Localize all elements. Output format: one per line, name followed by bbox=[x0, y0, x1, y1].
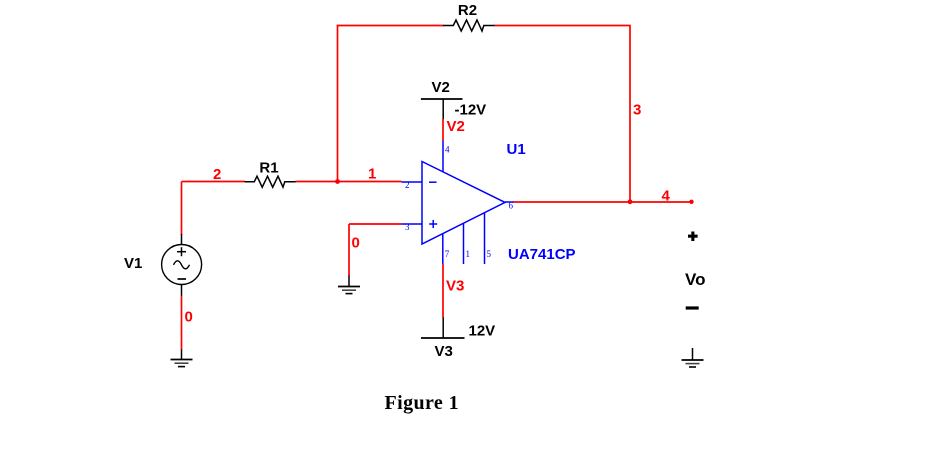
wire feedback top horizontal left of R2 bbox=[337, 25, 444, 27]
svg-text:-12V: -12V bbox=[455, 102, 487, 119]
svg-text:6: 6 bbox=[509, 201, 514, 211]
svg-text:1: 1 bbox=[466, 249, 471, 259]
wire node 2 horizontal (V1 to R1) bbox=[182, 181, 246, 183]
op-amp pin 1 stub bbox=[463, 223, 465, 264]
output plus sign bbox=[688, 232, 698, 242]
svg-text:3: 3 bbox=[405, 222, 410, 232]
svg-text:R1: R1 bbox=[259, 160, 278, 177]
wire output (pin 6 to terminal) bbox=[514, 201, 692, 203]
wire pin 7 to V3 bbox=[442, 264, 444, 318]
svg-text:V3: V3 bbox=[446, 278, 464, 295]
svg-text:2: 2 bbox=[405, 180, 410, 190]
svg-text:7: 7 bbox=[445, 249, 450, 259]
svg-text:Figure 1: Figure 1 bbox=[385, 392, 460, 414]
resistor R2 bbox=[443, 20, 495, 31]
svg-text:12V: 12V bbox=[469, 323, 496, 340]
op-amp pin 4 stub bbox=[442, 141, 444, 173]
ground (below V1) bbox=[171, 350, 193, 367]
supply V3 symbol bbox=[421, 318, 465, 339]
junction node 3/4 dot bbox=[628, 199, 633, 204]
svg-text:1: 1 bbox=[368, 166, 376, 183]
V1 top lead bbox=[181, 234, 183, 245]
wire V2 to pin 4 bbox=[442, 119, 444, 141]
svg-text:0: 0 bbox=[352, 235, 360, 252]
op-amp pin 7 stub bbox=[442, 234, 444, 265]
wire non-inverting input horizontal bbox=[349, 223, 402, 225]
wire feedback left vertical (node 1 to top) bbox=[337, 26, 339, 182]
op-amp U1 bbox=[402, 162, 515, 245]
svg-text:U1: U1 bbox=[507, 141, 526, 158]
ground (below non-inverting input) bbox=[338, 276, 360, 294]
wire V1 bottom vertical (net 0) bbox=[181, 296, 183, 350]
ground (output reference) bbox=[682, 348, 704, 367]
source V1 bbox=[162, 245, 202, 285]
output minus sign bbox=[686, 306, 699, 309]
wire feedback top horizontal right of R2 bbox=[495, 25, 631, 27]
supply V2 symbol bbox=[421, 99, 463, 120]
svg-text:0: 0 bbox=[185, 309, 193, 326]
svg-text:R2: R2 bbox=[458, 2, 477, 19]
op-amp pin 5 stub bbox=[484, 213, 486, 264]
svg-text:V3: V3 bbox=[435, 343, 453, 360]
wire V1 top vertical bbox=[181, 182, 183, 236]
svg-text:3: 3 bbox=[633, 102, 641, 119]
junction node 1 dot bbox=[335, 179, 340, 184]
wire non-inverting vertical (net 0) bbox=[348, 224, 350, 276]
svg-text:V1: V1 bbox=[124, 255, 142, 272]
resistor R1 bbox=[245, 176, 296, 187]
svg-text:V2: V2 bbox=[432, 79, 450, 96]
svg-text:Vo: Vo bbox=[685, 270, 705, 289]
svg-text:V2: V2 bbox=[447, 118, 465, 135]
terminal dot node 4 bbox=[689, 200, 693, 204]
svg-text:2: 2 bbox=[213, 166, 221, 183]
svg-text:5: 5 bbox=[487, 249, 492, 259]
wire node 1 horizontal (R1 to op-amp) bbox=[296, 181, 402, 183]
wire feedback right vertical (net 3) bbox=[629, 26, 631, 202]
svg-text:UA741CP: UA741CP bbox=[508, 246, 576, 263]
svg-text:4: 4 bbox=[662, 188, 671, 205]
V1 bottom lead bbox=[181, 284, 183, 296]
svg-text:4: 4 bbox=[445, 145, 450, 155]
